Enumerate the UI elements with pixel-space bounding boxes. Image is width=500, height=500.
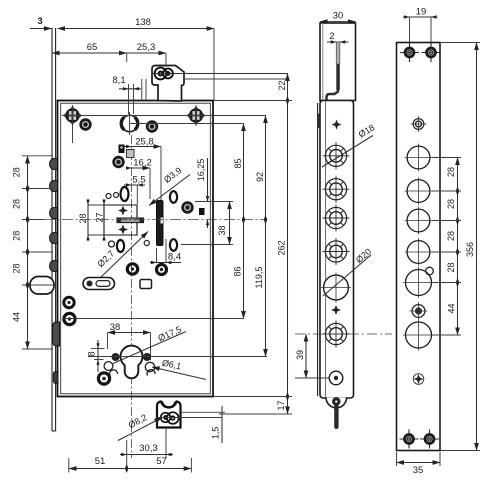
svg-text:3: 3 [37, 16, 42, 27]
faceplate hole 4 [405, 238, 433, 266]
clip arc right [147, 370, 155, 376]
svg-text:65: 65 [87, 42, 98, 53]
hole row reference line [73, 115, 267, 117]
bottom rod [334, 404, 338, 429]
svg-text:30,3: 30,3 [139, 443, 158, 454]
svg-text:22: 22 [277, 80, 287, 90]
center mark top [332, 120, 342, 130]
svg-text:1,5: 1,5 [210, 427, 220, 440]
side tab [317, 114, 320, 129]
svg-text:16,25: 16,25 [196, 159, 206, 182]
horizontal centerline [44, 219, 267, 221]
svg-text:28: 28 [78, 213, 88, 223]
dark hole right [157, 265, 167, 275]
svg-text:25,8: 25,8 [135, 137, 154, 148]
body top edge extension [214, 100, 292, 102]
faceplate hole 1 [405, 144, 433, 172]
faceplate front view [397, 43, 441, 451]
svg-text:8: 8 [86, 351, 96, 356]
svg-text:44: 44 [446, 303, 456, 313]
hook lower edge line [184, 78, 288, 80]
dimension 35 [397, 462, 441, 464]
svg-text:38: 38 [217, 225, 227, 235]
svg-text:39: 39 [295, 350, 305, 360]
bottom screw left [400, 430, 419, 449]
top screw right [422, 43, 441, 62]
crown circles [161, 412, 179, 424]
hook drive rod [327, 42, 340, 101]
svg-text:19: 19 [416, 7, 427, 18]
svg-text:28: 28 [11, 199, 21, 209]
dimension 28 bracket [88, 204, 137, 206]
roller 1 [323, 142, 350, 169]
center mark mid [331, 305, 341, 315]
svg-text:85: 85 [233, 158, 243, 168]
cylinder reference line [88, 356, 267, 358]
small hole [109, 241, 115, 247]
hook pin circles [155, 68, 173, 80]
leader diameter 3.9 [149, 175, 190, 206]
follower frame [104, 205, 137, 235]
spring slot [121, 187, 129, 201]
svg-text:8,1: 8,1 [112, 75, 125, 86]
left chain ticks [22, 156, 53, 349]
svg-text:57: 57 [156, 456, 167, 467]
left chain tick diamonds [26, 184, 30, 290]
strike block [199, 208, 205, 215]
latch bolt (edge) [157, 201, 164, 246]
svg-text:28: 28 [11, 167, 21, 177]
svg-text:28: 28 [11, 263, 21, 273]
roller 2 [323, 176, 350, 203]
svg-text:2: 2 [329, 31, 334, 42]
svg-text:8,4: 8,4 [168, 252, 181, 263]
ringed hole [146, 120, 158, 132]
chain 85/86 [243, 124, 245, 319]
svg-text:30: 30 [333, 11, 344, 22]
leader diameter 2.7 [99, 232, 148, 280]
drive wheel 20 [321, 273, 351, 303]
svg-text:28: 28 [446, 231, 456, 241]
middle lower strip [318, 101, 354, 399]
slotted link [83, 278, 115, 290]
lip line 1.5 [181, 411, 225, 413]
euro profile keyhole [121, 346, 143, 379]
small rect window [140, 280, 152, 289]
faceplate strip (edge view) [52, 28, 56, 431]
svg-text:119,5: 119,5 [254, 267, 264, 289]
small hole [106, 194, 111, 199]
ringed hole [79, 118, 91, 130]
deadbolt nose (left projection) [30, 277, 54, 295]
ringed hole [112, 156, 124, 168]
dark roller hole [410, 302, 428, 320]
leader diameter 18 [322, 136, 373, 168]
roller 4 [323, 238, 350, 265]
screw crosshair stubs [72, 105, 74, 143]
right chain 28x4 + 44 [457, 158, 459, 336]
stop pin block [119, 145, 125, 154]
small hole [114, 193, 119, 198]
svg-text:28: 28 [446, 167, 456, 177]
bottom screw right [420, 430, 439, 449]
left dimension chain line [27, 156, 29, 349]
follower star bottom [118, 225, 128, 235]
svg-text:44: 44 [11, 312, 21, 322]
cylinder fixing dot left [112, 353, 120, 361]
body bottom edge extension [213, 396, 292, 398]
ringed hole right [181, 201, 193, 213]
leader diameter 20 [323, 255, 371, 296]
middle upper case [320, 23, 356, 101]
svg-text:92: 92 [255, 172, 265, 182]
vertical centerline [131, 135, 133, 458]
top screw left [400, 43, 419, 62]
svg-text:28: 28 [446, 199, 456, 209]
clip hole right [145, 362, 154, 371]
hub bar [117, 218, 144, 223]
svg-text:35: 35 [413, 465, 424, 476]
bracket slot extension lines [141, 79, 143, 101]
dimension 8 [97, 340, 99, 372]
chain 92/119.5 [265, 116, 267, 357]
follower star top [118, 206, 128, 216]
svg-text:86: 86 [232, 266, 242, 276]
svg-text:28: 28 [446, 262, 456, 272]
crown circle reference line [157, 417, 222, 419]
chain 22/262/17 [287, 74, 289, 415]
faceplate hole 5 [403, 267, 434, 298]
screw boss top-left [63, 106, 83, 126]
dimension 27 bracket [103, 199, 105, 241]
svg-text:262: 262 [276, 240, 286, 255]
latch roller centerline [295, 333, 392, 335]
tick 17 bottom [219, 413, 292, 415]
roller 3 [323, 205, 350, 232]
stacked rivets left [64, 297, 74, 307]
latch housing bump on faceplate [53, 322, 60, 346]
hook pin centerline [153, 73, 288, 75]
dark hole left [127, 264, 137, 274]
svg-text:138: 138 [135, 17, 151, 28]
spring oval [117, 240, 124, 252]
svg-text:51: 51 [95, 456, 106, 467]
leader diameter 17.5 [113, 332, 186, 364]
cylinder fixing dot right [143, 353, 151, 361]
faceplate hole 2 [405, 177, 433, 205]
latch roller [323, 321, 350, 348]
dimension 356 [476, 43, 478, 451]
spindle hole reference line [130, 123, 244, 125]
center mark bottom [413, 374, 424, 385]
dimension 16.25 [207, 158, 209, 202]
svg-text:5,5: 5,5 [132, 175, 145, 186]
pin hole [329, 371, 343, 385]
cylinder retainer crown [157, 402, 181, 428]
leader diameter 6.1 [152, 367, 206, 380]
small roller hole [411, 116, 427, 132]
bolt pins on faceplate [50, 159, 58, 272]
faceplate hole 6 [403, 320, 434, 351]
small hole [144, 240, 149, 245]
small pin bump on faceplate [53, 372, 58, 384]
svg-text:25,3: 25,3 [137, 42, 156, 53]
svg-text:38: 38 [110, 322, 121, 333]
clip arc left [110, 370, 118, 377]
screw boss top-right [186, 106, 206, 126]
clip hole left [104, 362, 113, 371]
slot oval upper [170, 191, 177, 203]
lock body outline [58, 101, 214, 397]
svg-text:28: 28 [11, 231, 21, 241]
leader diameter 8.2 [118, 418, 162, 441]
rivet reference line [63, 318, 244, 320]
dark rivet lower-left [98, 373, 109, 384]
dimension 8.4 [156, 248, 158, 263]
slot oval lower [170, 239, 177, 251]
guide block [127, 150, 135, 158]
spindle hole with cross [121, 112, 138, 135]
dimension 38 right [195, 201, 233, 203]
small hole near big hole [426, 267, 434, 275]
svg-text:27: 27 [94, 212, 104, 222]
dimension 39 [305, 334, 307, 378]
svg-text:17: 17 [276, 400, 286, 410]
crown notch inner arc [163, 402, 176, 408]
faceplate hole 3 [405, 207, 433, 235]
bottom bracket [326, 397, 347, 408]
svg-text:356: 356 [465, 242, 475, 257]
top hook bracket [152, 66, 184, 102]
svg-text:16,2: 16,2 [133, 158, 152, 169]
